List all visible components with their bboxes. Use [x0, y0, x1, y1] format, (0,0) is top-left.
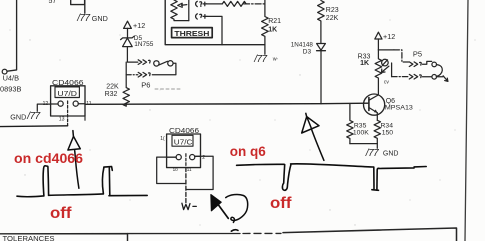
power +12 right — [375, 32, 382, 39]
dashes under P6 — [155, 88, 181, 90]
switch contacts U7/C — [176, 155, 181, 160]
svg-text:THRESH: THRESH — [174, 29, 209, 38]
IC U7/C box — [167, 134, 201, 168]
zener D5 — [121, 36, 135, 46]
wire dash-dot to R21 — [244, 3, 265, 5]
box THRESH region — [165, 0, 265, 45]
title block bottom-right — [283, 228, 457, 241]
svg-text:/77: /77 — [365, 148, 379, 159]
wire U4/B output vertical — [7, 0, 16, 71]
wire U7/D left pin to ground — [37, 104, 50, 111]
resistor R34 — [374, 120, 380, 148]
connector P6 arrows row2 — [138, 72, 150, 77]
svg-text:13: 13 — [59, 116, 65, 122]
svg-text:cv: cv — [384, 79, 390, 85]
transistor Q6 — [364, 94, 385, 115]
svg-text:R35: R35 — [354, 122, 367, 129]
wire U7/C right loop — [186, 156, 213, 189]
ground W under U7/C — [182, 203, 196, 209]
svg-text:+12: +12 — [383, 32, 395, 41]
IC U7/D inner label box — [55, 87, 79, 98]
svg-text:GND: GND — [383, 150, 399, 157]
connector P5 arrows row1 — [409, 61, 431, 66]
switch P6 — [154, 61, 159, 66]
svg-text:11: 11 — [86, 101, 91, 107]
svg-text:on cd4066: on cd4066 — [14, 150, 83, 166]
LED opto — [382, 59, 389, 66]
svg-text:TOLERANCES: TOLERANCES — [3, 236, 55, 241]
svg-text:11: 11 — [187, 167, 192, 172]
wire D5 to P6 — [127, 47, 137, 63]
pin P5-2 — [432, 75, 437, 80]
svg-text:1N755: 1N755 — [134, 41, 154, 48]
power +12 left — [124, 21, 132, 28]
diode D3 — [317, 44, 326, 51]
squiggle annotation — [226, 195, 248, 223]
svg-text:GND: GND — [10, 113, 26, 122]
svg-text:R23: R23 — [326, 7, 339, 14]
waveform q6 — [237, 164, 427, 191]
arrow annotation middle — [302, 113, 324, 160]
svg-text:R34: R34 — [381, 122, 394, 129]
svg-text:22K: 22K — [326, 15, 339, 22]
svg-text:1K: 1K — [360, 60, 369, 67]
svg-text:P5: P5 — [413, 50, 422, 59]
border right — [465, 0, 468, 241]
jumper arc P5 — [436, 65, 442, 77]
connector pin row1 — [196, 1, 223, 6]
control dashed U7/D — [67, 101, 69, 126]
wire U7/C left loop — [157, 157, 186, 183]
resistor R23 — [318, 1, 325, 44]
squiggle tail dash — [231, 230, 238, 231]
op-amp U4/B output circle — [2, 69, 7, 74]
pin P5-1 — [432, 62, 437, 67]
svg-text:1(: 1( — [160, 136, 165, 142]
wire control to left edge — [0, 125, 68, 128]
svg-text:R21: R21 — [268, 18, 281, 25]
svg-text:D3: D3 — [303, 48, 312, 55]
wire main horizontal — [85, 103, 368, 104]
svg-text:GND: GND — [92, 14, 108, 23]
title block bottom-left — [0, 234, 128, 241]
svg-text:on q6: on q6 — [230, 144, 266, 159]
svg-text:/77: /77 — [26, 111, 40, 122]
svg-text:100K: 100K — [353, 130, 369, 137]
svg-text:1K: 1K — [268, 27, 277, 34]
svg-text:/77: /77 — [253, 54, 267, 65]
resistor R21 — [262, 0, 269, 54]
svg-text:off: off — [50, 205, 72, 222]
wire LED stub — [391, 63, 393, 77]
waveform cd4066 — [17, 166, 147, 197]
wire R35-R34 bottom — [350, 143, 377, 145]
arrow annotation small right — [211, 195, 221, 211]
svg-text:U7/C: U7/C — [174, 140, 193, 147]
control dashed U7/C — [185, 154, 187, 168]
svg-text:P6: P6 — [141, 80, 150, 89]
wire dash-dot row2 — [126, 74, 138, 76]
svg-text:57: 57 — [49, 0, 57, 5]
wire +12 to D5 — [127, 28, 129, 37]
svg-text:U7/D: U7/D — [57, 91, 77, 98]
connector P5 arrows row2 — [409, 74, 432, 79]
svg-text:10: 10 — [173, 167, 179, 172]
arrow annotation left — [68, 131, 80, 189]
IC U7/C inner label box — [172, 135, 193, 146]
svg-text:+12: +12 — [133, 21, 145, 30]
svg-text:U4/B: U4/B — [3, 74, 20, 83]
resistor R33 — [375, 50, 382, 94]
LED arrow — [382, 66, 389, 72]
resistor horizontal top — [222, 1, 246, 6]
svg-text:150: 150 — [382, 130, 394, 137]
wire to top ground — [84, 0, 86, 13]
wire D3 to main — [320, 51, 322, 104]
wire dash-dot P5 row2 — [392, 76, 409, 78]
svg-text:R32: R32 — [105, 91, 118, 98]
wire +12 down — [377, 39, 379, 50]
svg-text:MPSA13: MPSA13 — [385, 104, 413, 111]
IC U7/D box — [51, 86, 85, 116]
potentiometer wiper — [181, 0, 188, 21]
svg-text:0893B: 0893B — [0, 85, 21, 94]
svg-text:1N4148: 1N4148 — [291, 41, 314, 48]
corner tick U7/D — [84, 116, 86, 120]
potentiometer zigzag — [171, 0, 189, 21]
svg-text:/77: /77 — [76, 13, 90, 24]
svg-text:off: off — [270, 195, 292, 212]
resistor R32 — [123, 62, 129, 106]
svg-text:22K: 22K — [106, 83, 119, 90]
connector P6 arrows row1 — [138, 60, 150, 65]
capacitor bracket top — [71, 0, 85, 5]
wire P6 loop — [152, 63, 176, 74]
switch contacts U7/D — [58, 101, 63, 106]
svg-text:w·: w· — [272, 57, 279, 63]
resistor R35 — [347, 104, 353, 144]
wire node to P5 row1 — [378, 49, 394, 51]
THRESH label box — [172, 28, 213, 38]
wire P5-2 tail — [437, 76, 448, 82]
connector pin row2 — [196, 14, 222, 45]
